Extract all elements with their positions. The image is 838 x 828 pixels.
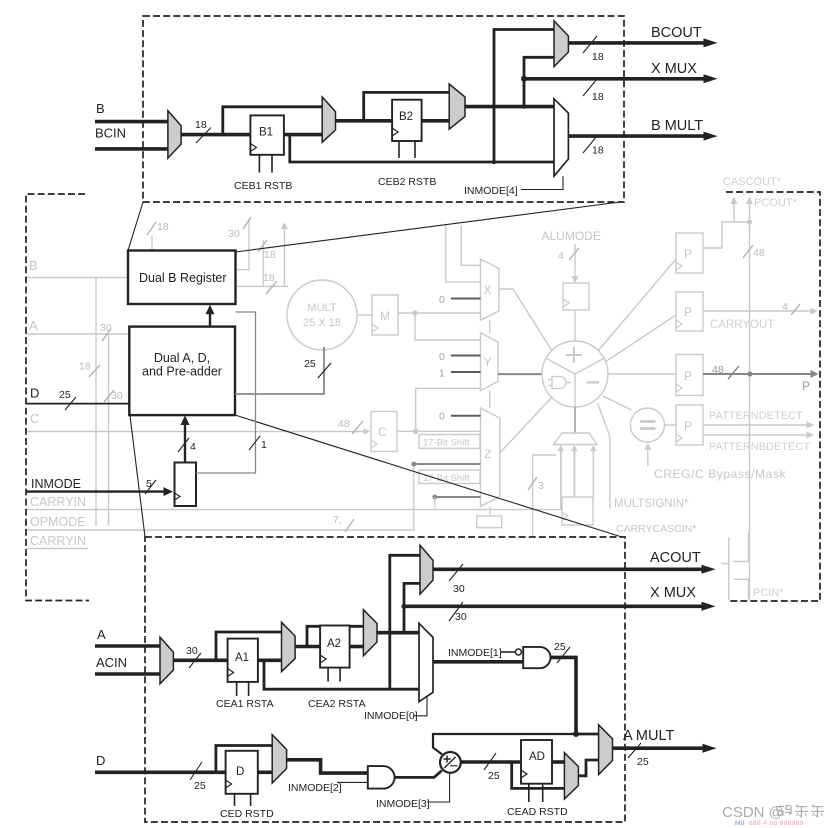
svg-text:CARRYIN: CARRYIN [30, 534, 86, 548]
svg-text:CEA2 RSTA: CEA2 RSTA [308, 698, 366, 710]
wire AND1 out down to node [550, 641, 576, 734]
wire mux1 out with 18 slash [181, 119, 250, 143]
shift box 17-Bit Shift upper [419, 435, 480, 449]
wire PATTERNDETECT [703, 422, 814, 429]
watermark glyph le1 [795, 805, 808, 817]
wire mux2 out [336, 119, 393, 123]
svg-text:INMODE[3]: INMODE[3] [376, 798, 430, 810]
wire INMODE4 to Dual B Register [196, 312, 267, 473]
svg-text:ALUMODE: ALUMODE [542, 229, 601, 243]
svg-text:25: 25 [554, 641, 566, 653]
svg-text:25 X 18: 25 X 18 [303, 317, 341, 329]
svg-text:X: X [484, 283, 492, 297]
svg-text:CED RSTD: CED RSTD [220, 808, 274, 820]
wire node to preadder and AMULT mux [433, 731, 599, 754]
svg-text:30: 30 [455, 611, 467, 623]
register P1 [676, 233, 703, 273]
wire A input [26, 333, 129, 335]
svg-text:P: P [684, 419, 692, 433]
wire Dual AD to MULT 25 [235, 347, 331, 394]
wire Z input y464 [411, 462, 480, 467]
wire Z out to ALU [500, 398, 552, 454]
svg-text:1: 1 [261, 439, 267, 451]
register INMODE [175, 463, 197, 507]
wire B input [95, 120, 168, 124]
alu minus sign [587, 381, 600, 383]
svg-text:17-Bit Shift: 17-Bit Shift [423, 438, 470, 449]
svg-text:P: P [684, 247, 692, 261]
wire C reg out to Z [397, 429, 481, 435]
wire X MUX output arrow bottom [404, 602, 716, 623]
svg-text:25: 25 [59, 389, 71, 401]
node INMODE4 label and tie [464, 176, 563, 197]
register AD [521, 740, 552, 784]
svg-text:CREG/C Bypass/Mask: CREG/C Bypass/Mask [654, 467, 787, 481]
register P2 [676, 292, 703, 331]
wire D pins CED RSTD [220, 794, 274, 820]
wire Y out to ALU [498, 373, 542, 375]
wire mux4 out jog [578, 760, 598, 776]
svg-text:CEAD RSTD: CEAD RSTD [507, 806, 568, 818]
wire A2 pins CEA2 RSTA [308, 668, 366, 710]
mux B2 bypass select [449, 84, 465, 129]
wire mux3 out to BMULT mux [465, 104, 554, 108]
wire A1 pins CEA1 RSTA [216, 682, 274, 710]
wire B1 bypass [223, 107, 322, 135]
svg-text:4: 4 [782, 301, 788, 313]
wire BCOUT up-bus [258, 240, 276, 286]
wire ALU ray to P1 [598, 259, 676, 351]
wire D reg out [258, 770, 272, 774]
wire ALU ray to multsign vertical [598, 403, 610, 508]
svg-text:B: B [29, 258, 38, 273]
wire P output [703, 370, 819, 378]
mux Z [481, 408, 500, 506]
wire B1 lower branch to BMULT mux [290, 135, 554, 162]
svg-text:0: 0 [439, 351, 445, 363]
wire AND2 out to preadder [395, 771, 442, 778]
wire Z input y497 [432, 495, 480, 510]
wire B to MULT [236, 272, 289, 294]
wire CARRYIN [26, 449, 561, 510]
svg-text:25: 25 [637, 756, 649, 768]
svg-text:P: P [802, 379, 810, 393]
register B1 [250, 115, 284, 154]
wire ACIN input [95, 672, 160, 676]
svg-text:INMODE[4]: INMODE[4] [464, 185, 518, 197]
mux B BCIN select [168, 111, 181, 158]
svg-text:3: 3 [538, 480, 544, 492]
mux ACOUT [420, 545, 433, 594]
svg-text:48: 48 [712, 364, 724, 376]
gate AND1 with bubble [515, 647, 550, 668]
wire C 48 slash [338, 418, 363, 434]
block Dual B Register [128, 251, 236, 305]
wire M out to X mux [398, 310, 481, 315]
wire ALU ray to equals [603, 396, 632, 410]
mux Y [481, 333, 499, 391]
svg-text:and Pre-adder: and Pre-adder [142, 365, 222, 379]
register B2 [392, 100, 422, 141]
wire X-Y-Z select daisy [489, 320, 491, 408]
svg-text:CARRYOUT: CARRYOUT [710, 319, 774, 331]
wire INMODE reg to Dual AD arrow [178, 416, 196, 463]
wire Y const 1 [439, 368, 481, 380]
wire ALU to P3 [608, 373, 676, 375]
svg-text:AD: AD [529, 751, 545, 763]
svg-text:A: A [29, 318, 38, 333]
wire ALUMODE reg to ALU [574, 310, 576, 341]
wire Z const 0 [439, 411, 481, 423]
wire riser A2path to ACOUT mux and X MUX [401, 583, 420, 632]
wire MULT to M reg [357, 314, 372, 316]
wire A 30 slash [100, 322, 112, 341]
wire muxD out to AND2 [287, 760, 368, 773]
wire PCIN brackets [722, 532, 749, 600]
svg-text:M8: M8 [735, 820, 745, 827]
svg-text:INMODE[0]: INMODE[0] [364, 710, 418, 722]
mux A1 bypass select [282, 622, 296, 671]
register A2 [320, 626, 350, 668]
svg-text:PATTERNBDETECT: PATTERNBDETECT [709, 441, 810, 453]
svg-text:1: 1 [439, 368, 445, 380]
wire equals to P4 [664, 424, 676, 426]
alu ALU circle [542, 341, 608, 407]
svg-text:M: M [380, 309, 390, 323]
wire OPMODE [26, 464, 479, 530]
wire Dual AD to Dual B Register arrow [206, 305, 215, 327]
wire A2 out [350, 645, 364, 649]
wire AD bypass [512, 762, 565, 788]
multiplier MULT 25x18 circle [287, 280, 357, 350]
wedge top-left callout line [128, 202, 143, 251]
wire BCIN input [95, 147, 168, 151]
svg-text:MULT: MULT [307, 302, 336, 314]
register P4 [676, 405, 703, 445]
wire A input [95, 644, 160, 648]
register M [372, 295, 398, 335]
register D [226, 751, 258, 794]
svg-text:X MUX: X MUX [651, 61, 697, 77]
wedge top-right callout line [236, 202, 625, 253]
wire B2 pins CEB2 RSTB [378, 141, 436, 188]
svg-text:CARRYIN: CARRYIN [30, 495, 86, 509]
wire A MULT output arrow [613, 743, 717, 768]
wire X input from P feedback [461, 225, 480, 265]
svg-text:A MULT: A MULT [623, 728, 674, 744]
svg-text:30: 30 [111, 390, 123, 402]
svg-text:INMODE: INMODE [31, 477, 81, 491]
svg-text:48: 48 [753, 247, 765, 259]
wire ACOUT output arrow [433, 564, 716, 595]
wire riser A1path to ACOUT mux [390, 555, 420, 689]
wire B MULT output arrow [568, 132, 717, 157]
wire B1 path riser to BCOUT mux upper input [492, 30, 554, 165]
svg-text:30: 30 [100, 322, 112, 334]
wire C branch to Y [416, 388, 481, 431]
svg-text:Dual B Register: Dual B Register [139, 271, 227, 285]
callout box bottom dashed [145, 537, 625, 822]
svg-text:0: 0 [439, 411, 445, 423]
svg-text:4: 4 [558, 250, 564, 262]
svg-text:PCOUT*: PCOUT* [754, 197, 798, 209]
wire B2 bypass [364, 92, 450, 120]
svg-text:BCOUT: BCOUT [651, 25, 702, 41]
wire X MUX output arrow [524, 74, 718, 103]
wire carry inputs up arrows [558, 445, 597, 510]
svg-text:C: C [378, 425, 387, 439]
wire X out to ALU [499, 289, 552, 351]
wire B down-bus [79, 278, 100, 527]
mux A MULT [599, 725, 613, 775]
svg-text:888 4 88 888888: 888 4 88 888888 [749, 820, 804, 827]
mux BCOUT [554, 21, 568, 67]
wire CREG up arrow to equals [644, 443, 651, 466]
block Dual A D and Pre-adder [129, 327, 235, 416]
svg-text:25: 25 [304, 358, 316, 370]
svg-text:5: 5 [146, 478, 152, 490]
svg-text:CSDN @: CSDN @ [722, 804, 784, 821]
mux B MULT white [554, 99, 568, 176]
wire INMODE input arrow [26, 478, 173, 496]
svg-text:B MULT: B MULT [651, 118, 703, 134]
DARK OVERLAY LAYER [26, 192, 820, 601]
node INMODE0 label and tie [364, 696, 427, 723]
alu and-gate glyph [548, 377, 571, 389]
comparator equals circle [630, 408, 664, 442]
svg-text:CEA1 RSTA: CEA1 RSTA [216, 698, 274, 710]
wire preadder to AD with 25 slash [461, 753, 521, 782]
svg-text:7,: 7, [333, 514, 342, 526]
svg-text:18: 18 [195, 119, 207, 131]
mux D bypass select [272, 735, 286, 783]
svg-text:CEB1 RSTB: CEB1 RSTB [234, 180, 292, 192]
adder preadder circle [440, 752, 461, 773]
wire mux3a out to big mux [377, 631, 419, 635]
svg-text:18: 18 [592, 145, 604, 157]
svg-text:BCIN: BCIN [95, 126, 126, 141]
wire cascade up arrow [281, 222, 288, 286]
wire CARRYINSEL [26, 548, 88, 550]
slice dashed frame right [726, 192, 820, 601]
svg-text:D: D [236, 766, 244, 778]
svg-text:ACIN: ACIN [96, 655, 127, 670]
wire CARRYOUT [703, 301, 818, 315]
svg-text:CEB2 RSTB: CEB2 RSTB [378, 176, 436, 188]
gate AND2 [368, 766, 395, 789]
svg-text:B1: B1 [259, 127, 273, 139]
register A1 [228, 639, 258, 682]
svg-text:OPMODE: OPMODE [30, 515, 86, 529]
wire X input from A:B [446, 225, 481, 282]
wire BCIN stub into Dual B Register top [147, 221, 169, 250]
wire CASCOUT arrow [731, 197, 738, 223]
wedge bottom-left callout line [130, 416, 145, 538]
wire D input [26, 389, 129, 410]
wire B2 out [422, 119, 450, 123]
watermark glyph ma [777, 806, 791, 815]
BOTTOM CALLOUT [95, 537, 717, 822]
wire CARRYINSEL riser with 3 slash [528, 455, 556, 537]
wire A1 out [258, 658, 282, 662]
wire P 48 slash [712, 364, 739, 379]
svg-text:18: 18 [592, 91, 604, 103]
svg-text:25: 25 [488, 770, 500, 782]
svg-text:INMODE[2]: INMODE[2] [288, 782, 342, 794]
svg-text:PATTERNDETECT: PATTERNDETECT [709, 410, 803, 422]
svg-text:18: 18 [157, 221, 169, 233]
shift box 17-Bit Shift lower [419, 470, 480, 484]
BACKGROUND GRAY LAYER [26, 176, 819, 601]
wire Y const 0 [439, 351, 481, 363]
svg-text:0: 0 [439, 294, 445, 306]
wire mux2a out [295, 645, 320, 649]
wire B1 out [284, 133, 322, 137]
wire A1 bypass [216, 632, 282, 660]
svg-text:A: A [97, 627, 106, 642]
mux INMODE0 big white [419, 623, 433, 701]
node INMODE3 label and tie [376, 774, 450, 811]
svg-text:D: D [96, 753, 105, 768]
wire PCOUT vertical [746, 197, 753, 602]
alu plus sign [566, 347, 582, 363]
svg-text:A2: A2 [327, 638, 341, 650]
svg-text:18: 18 [592, 51, 604, 63]
svg-text:30: 30 [453, 583, 465, 595]
svg-text:4: 4 [190, 441, 196, 453]
wire BCOUT output arrow [568, 36, 717, 63]
svg-text:PCIN*: PCIN* [753, 587, 784, 599]
svg-text:25: 25 [194, 780, 206, 792]
wire X const 0 [439, 294, 481, 306]
svg-text:P: P [684, 305, 692, 319]
wire D bypass [216, 746, 272, 773]
register P3 [676, 355, 703, 396]
wire riser to BCOUT mux lower input [521, 57, 554, 106]
wire ACOUT up-bus [228, 217, 251, 270]
svg-text:Dual A, D,: Dual A, D, [154, 351, 210, 365]
svg-text:30: 30 [186, 645, 198, 657]
watermark glyph le2 [811, 805, 824, 817]
wire AD out [552, 760, 564, 764]
wire big mux out to AND1 [433, 660, 523, 664]
wedge bottom-right callout line [235, 415, 625, 538]
wire B input [26, 277, 128, 279]
wire INMODE1 to bubble [501, 651, 515, 653]
svg-text:P: P [684, 369, 692, 383]
svg-text:D: D [30, 386, 39, 401]
svg-text:C: C [30, 411, 39, 426]
mux AD bypass select [564, 753, 578, 799]
register CARRYIN [562, 497, 593, 525]
wire C input [26, 428, 371, 435]
wire A down-bus [104, 334, 123, 526]
node INMODE2 label and tie [288, 782, 368, 794]
mux B1 bypass select [322, 97, 335, 142]
mux X [481, 259, 499, 320]
svg-text:Z: Z [484, 447, 491, 461]
svg-text:CARRYCASCIN*: CARRYCASCIN* [616, 523, 696, 535]
wire muxA out with 30 slash [173, 645, 227, 668]
wire D input bottom [95, 762, 226, 792]
svg-text:48: 48 [338, 418, 350, 430]
svg-text:18: 18 [263, 272, 275, 284]
svg-text:B2: B2 [399, 111, 413, 123]
wire PATTERNBDETECT [703, 432, 814, 439]
svg-text:18: 18 [79, 361, 91, 373]
svg-text:30: 30 [228, 228, 240, 240]
TOP CALLOUT [95, 16, 718, 202]
wire A2 bypass [307, 626, 363, 646]
slice dashed frame left [26, 194, 89, 601]
register C [371, 412, 397, 452]
wire ALU to carry mux [574, 407, 576, 433]
svg-text:A1: A1 [235, 652, 249, 664]
svg-text:X MUX: X MUX [650, 585, 696, 601]
register ALUMODE [563, 283, 589, 310]
svg-text:CASCOUT*: CASCOUT* [723, 176, 782, 188]
wire OPMODE 7 slash [333, 514, 354, 532]
WATERMARK [722, 804, 824, 827]
carry mux trapezoid [554, 433, 598, 445]
wire P1 to cascout [703, 222, 750, 248]
svg-text:INMODE[1]: INMODE[1] [448, 647, 502, 659]
svg-text:B: B [96, 101, 105, 116]
svg-text:18: 18 [264, 249, 276, 261]
wire ALU ray to P2 [605, 315, 676, 362]
mux A ACIN select [160, 637, 173, 684]
wire AD pins CEAD RSTD [507, 784, 568, 818]
callout box top dashed [143, 16, 624, 202]
wire ALUMODE input [558, 244, 579, 283]
svg-text:MULTSIGNIN*: MULTSIGNIN* [614, 498, 689, 510]
mux A2 bypass select [363, 610, 377, 656]
register OPMODE bottom [477, 506, 502, 527]
wire A1 lower branch [264, 660, 419, 689]
wire PCOUT 48 slash [743, 245, 765, 259]
wire B1 pins CEB1 RSTB [234, 155, 292, 192]
svg-text:Y: Y [484, 355, 492, 369]
wire M branch to Y mux [415, 313, 481, 340]
svg-text:ACOUT: ACOUT [650, 550, 701, 566]
